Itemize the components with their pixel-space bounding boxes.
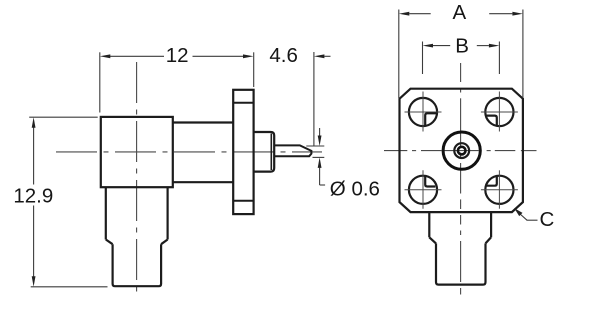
- contact pin: [274, 145, 311, 156]
- flange (side view): [233, 90, 253, 214]
- boss chamfer line: [270, 134, 272, 171]
- dimension 4.6: [254, 52, 331, 146]
- hole TR corner mark: [485, 116, 496, 127]
- svg-text:B: B: [455, 34, 469, 57]
- hole TR crosshair: [481, 92, 518, 132]
- svg-text:12.9: 12.9: [13, 184, 53, 207]
- hole TL crosshair: [405, 92, 442, 132]
- svg-text:12: 12: [166, 44, 189, 67]
- hole BL crosshair: [405, 170, 442, 208]
- cylinder between block and flange: [173, 123, 233, 183]
- body middle section: [106, 187, 168, 239]
- center interface outer circle: [443, 132, 480, 169]
- vertical centerline: [460, 63, 462, 295]
- svg-text:4.6: 4.6: [269, 44, 298, 67]
- svg-text:A: A: [453, 1, 467, 24]
- dimension B: [423, 42, 500, 75]
- chamfer callout C leader: [520, 214, 538, 221]
- vertical centerline (body axis): [136, 62, 138, 296]
- mounting hole top-right: [485, 98, 513, 126]
- dimension A: [399, 10, 523, 99]
- boss behind flange: [254, 132, 275, 172]
- mounting hole bottom-right: [485, 176, 513, 204]
- center pin circle: [458, 147, 466, 155]
- hole TL corner mark: [425, 113, 437, 125]
- svg-text:Ø 0.6: Ø 0.6: [330, 178, 380, 201]
- hole BR crosshair: [481, 170, 518, 208]
- body chamfer taper: [106, 240, 168, 245]
- rear lower stub: [436, 243, 486, 284]
- mounting hole top-left: [409, 98, 437, 126]
- body main block: [101, 117, 173, 187]
- flange chamfer line bottom: [233, 200, 253, 202]
- center dielectric circle: [454, 143, 469, 158]
- dimension 12: [100, 52, 245, 112]
- flange chamfer line top: [233, 102, 253, 104]
- hole BR corner mark: [486, 175, 497, 186]
- flange square with chamfered corners: [400, 89, 523, 212]
- dimension 12.9: [29, 117, 107, 287]
- mounting hole bottom-left: [409, 176, 437, 204]
- dimension Ø 0.6: [306, 128, 325, 185]
- horizontal centerline (axis): [56, 151, 322, 153]
- rear stub below flange: [429, 212, 491, 243]
- hole BL corner mark: [425, 176, 435, 187]
- horizontal centerline: [384, 150, 537, 152]
- body lower section: [113, 244, 162, 286]
- svg-text:C: C: [539, 208, 554, 231]
